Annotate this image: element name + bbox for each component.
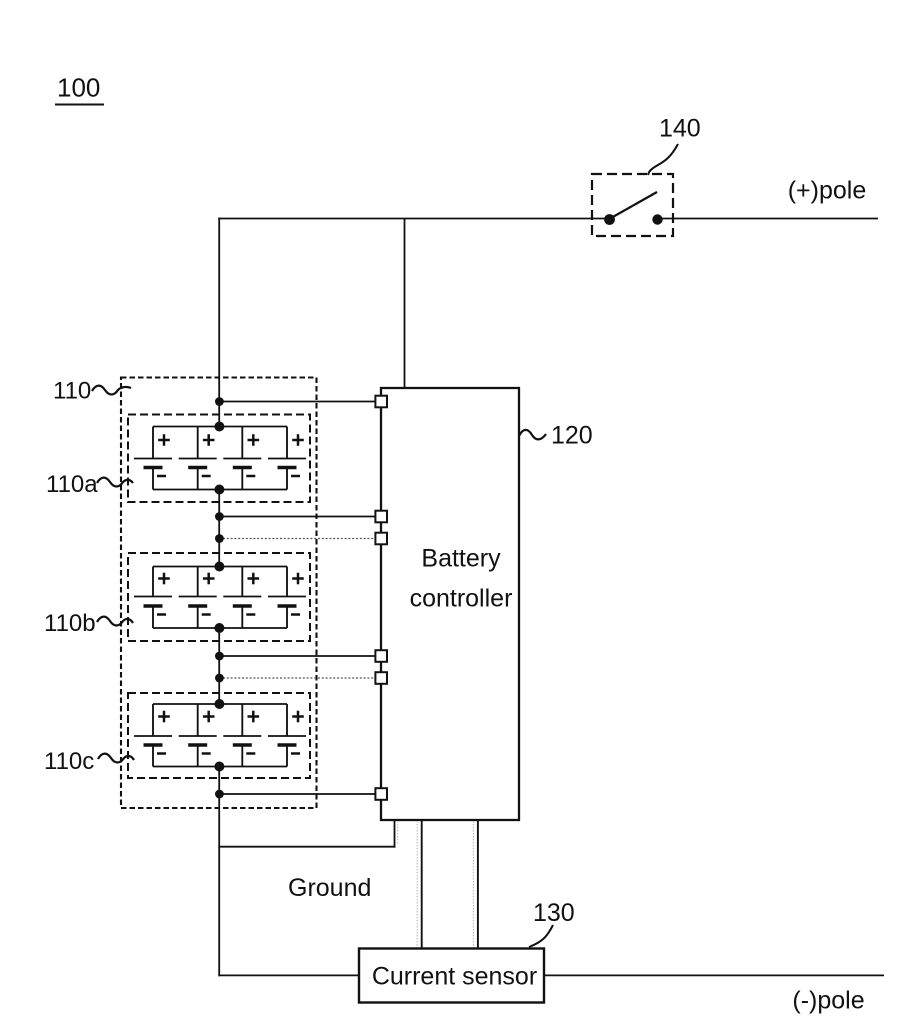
controller pin 2 (square terminal) xyxy=(375,511,387,523)
wire: (+) rail tap down to battery controller top, x=404.5 xyxy=(404,219,406,389)
leader squiggle from 110 to pack box xyxy=(92,386,131,395)
wire: battery string vertical x=219, top section xyxy=(218,218,220,427)
junction node at (219.5,656) xyxy=(215,652,224,661)
wire: 110a top sense, y=401.5 xyxy=(219,401,376,403)
wire: controller to current sensor line 2 (x=477.9) xyxy=(477,820,479,949)
wire: controller ground drop, x=394.5 xyxy=(394,820,396,848)
controller pin 1 (square terminal) xyxy=(375,396,387,408)
wire: controller to current sensor line 1 (x=421.7) xyxy=(421,820,423,949)
leader squiggle from 120 to controller xyxy=(519,430,546,440)
module 110b bottom bus wire xyxy=(153,627,287,629)
wire: battery string vertical between module 110b and 110c xyxy=(218,628,220,704)
wire: ground horizontal run to battery string xyxy=(218,846,395,848)
battery cell 110a-2 xyxy=(179,427,217,490)
leader squiggle from 110a to module box xyxy=(97,478,133,487)
battery controller 120 box xyxy=(381,388,519,820)
battery controller text xyxy=(410,545,513,613)
battery cell 110b-2 xyxy=(179,567,217,629)
svg-text:controller: controller xyxy=(410,585,513,613)
svg-text:Current sensor: Current sensor xyxy=(372,963,537,991)
module 110a top bus wire xyxy=(153,426,287,428)
junction node at (219.5,401.5) xyxy=(215,397,224,406)
controller pin 5 (square terminal) xyxy=(375,672,387,684)
switch SW 140 dashed enclosure xyxy=(592,174,673,236)
switch contact right xyxy=(652,214,662,224)
module 110b top bus wire xyxy=(153,566,287,568)
svg-text:130: 130 xyxy=(533,899,575,927)
junction node at (219.5,566.5) xyxy=(214,562,224,572)
module 110c bottom bus wire xyxy=(153,766,287,768)
svg-text:(-)pole: (-)pole xyxy=(792,987,864,1015)
wire: 110c sense (dotted), y=678 xyxy=(219,677,376,679)
battery cell 110b-1 xyxy=(134,567,172,629)
svg-text:110b: 110b xyxy=(44,610,96,637)
svg-text:Ground: Ground xyxy=(288,874,371,902)
controller pin 6 (square terminal) xyxy=(375,788,387,800)
battery cell 110b-4 xyxy=(268,567,306,629)
wire: ground shadow line xyxy=(397,821,399,845)
battery cell 110a-4 xyxy=(268,427,306,490)
battery cell 110c-1 xyxy=(134,704,172,767)
battery module 110a dashed enclosure xyxy=(128,415,310,503)
junction node at (219.5,538.5) xyxy=(215,534,224,543)
svg-text:110c: 110c xyxy=(44,748,94,775)
leader squiggle from 110c to module box xyxy=(98,754,134,763)
battery cell 110b-3 xyxy=(223,567,261,629)
svg-text:110: 110 xyxy=(53,378,91,405)
wire: (-) rail right segment xyxy=(544,974,884,976)
wire: 110a bottom / 110b top sense, y=516.5 xyxy=(219,516,376,518)
wire: battery string vertical between module 110a and 110b xyxy=(218,490,220,567)
battery cell 110a-1 xyxy=(134,427,172,490)
wire: (+) rail left segment, y=218.5 xyxy=(218,218,606,220)
controller pin 3 (square terminal) xyxy=(375,533,387,545)
wire: (+) rail right segment to (+)pole xyxy=(661,218,878,220)
leader squiggle from 110b to module box xyxy=(97,617,133,626)
wire: 110b sense (dotted), y=538.5 xyxy=(219,538,376,540)
battery cell 110a-3 xyxy=(223,427,261,490)
battery module 110c dashed enclosure xyxy=(128,693,310,778)
svg-text:100: 100 xyxy=(57,73,100,103)
leader from 130 to current sensor xyxy=(529,925,553,947)
battery module 110b dashed enclosure xyxy=(128,553,310,641)
wire: line 1 shadow xyxy=(416,821,418,948)
svg-text:(+)pole: (+)pole xyxy=(788,177,867,205)
switch contact left xyxy=(604,214,615,225)
svg-text:120: 120 xyxy=(551,422,593,450)
junction node at (219.5,678) xyxy=(215,674,224,683)
controller pin 4 (square terminal) xyxy=(375,650,387,662)
junction node at (219.5,426.5) xyxy=(214,422,224,432)
junction node at (219.5,794) xyxy=(215,790,224,799)
figure label 100 xyxy=(55,73,104,105)
battery pack 110 dashed enclosure xyxy=(121,378,317,809)
battery cell 110c-4 xyxy=(268,704,306,767)
junction node at (219.5,628) xyxy=(214,623,224,633)
battery cell 110c-2 xyxy=(179,704,217,767)
wire: (-) rail left segment, y=975.4 xyxy=(218,974,359,976)
module 110a bottom bus wire xyxy=(153,489,287,491)
leader from 140 to switch xyxy=(648,144,678,175)
wire: 110c bottom sense, y=794 xyxy=(219,793,376,795)
current sensor 130 box xyxy=(359,949,544,1003)
battery cell 110c-3 xyxy=(223,704,261,767)
junction node at (219.5,516.5) xyxy=(215,512,224,521)
wire: battery string vertical from module 110c to (-) rail xyxy=(218,767,220,977)
module 110c top bus wire xyxy=(153,703,287,705)
switch lever (open) xyxy=(611,192,657,218)
svg-text:140: 140 xyxy=(659,115,701,143)
junction node at (219.5,489.5) xyxy=(214,485,224,495)
wire: line 2 shadow xyxy=(472,821,474,948)
svg-text:110a: 110a xyxy=(46,471,98,498)
junction node at (219.5,766.5) xyxy=(214,762,224,772)
svg-text:Battery: Battery xyxy=(421,545,501,573)
wire: 110b bottom / 110c top sense, y=656 xyxy=(219,655,376,657)
junction node at (219.5,704) xyxy=(214,699,224,709)
